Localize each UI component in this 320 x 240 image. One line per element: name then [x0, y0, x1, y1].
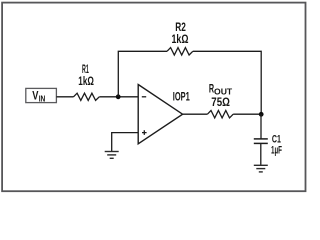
resistor ROUT — [207, 82, 233, 118]
source VIN — [26, 88, 57, 103]
wire — [183, 113, 208, 115]
svg-text:75Ω: 75Ω — [211, 96, 230, 109]
ground — [254, 165, 268, 172]
wire — [193, 51, 261, 114]
svg-text:IN: IN — [39, 94, 46, 103]
wire — [260, 143, 262, 165]
ground — [105, 152, 119, 159]
node A — [116, 94, 121, 99]
svg-text:1µF: 1µF — [271, 145, 282, 157]
capacitor C1 — [254, 134, 283, 157]
wire — [260, 114, 262, 139]
svg-text:1kΩ: 1kΩ — [78, 75, 94, 88]
resistor R2 — [167, 21, 193, 55]
wire — [112, 133, 139, 151]
wire — [118, 51, 167, 97]
svg-text:V: V — [32, 89, 38, 103]
op-amp IOP1 — [138, 85, 190, 144]
wire — [233, 113, 261, 115]
svg-text:1kΩ: 1kΩ — [172, 33, 189, 46]
node B — [259, 112, 264, 117]
wire — [99, 96, 138, 98]
resistor R1 — [74, 63, 100, 100]
svg-text:IOP1: IOP1 — [173, 90, 190, 104]
wire — [56, 96, 73, 98]
